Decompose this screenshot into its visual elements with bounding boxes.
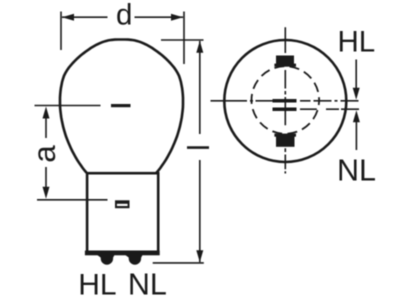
horizontal centerline (dash-dot segments) — [211, 100, 359, 102]
dimension l: up arrowhead — [196, 41, 203, 53]
bulb glass outline (side view) — [60, 40, 183, 173]
dimension l: vertical line upper segment — [199, 41, 201, 134]
dimension a: vertical line lower segment — [45, 167, 47, 189]
bottom pad body — [276, 136, 295, 147]
svg-text:NL: NL — [337, 154, 376, 188]
top contact pad (end view) — [276, 56, 294, 65]
dimension a: top reference line (light center line) — [35, 105, 101, 107]
svg-text:d: d — [116, 0, 132, 32]
svg-text:HL: HL — [338, 26, 376, 59]
bayonet pin (black rect with white slot) on base — [115, 200, 130, 208]
contact bump HL (bottom left) — [95, 253, 116, 258]
dimension a: down arrowhead — [43, 187, 50, 199]
NL reference line (right, dashed segments) — [300, 108, 359, 110]
top pad flange — [274, 64, 296, 67]
dimension d: left extension line — [60, 12, 62, 51]
pin white slot — [117, 204, 128, 206]
contact bump NL (bottom right) — [123, 253, 144, 258]
dimension d: left arrowhead — [62, 14, 74, 21]
base cap rectangle — [87, 173, 158, 252]
dimension d: line right segment — [135, 16, 184, 18]
filament bar NL (offset) — [273, 108, 297, 112]
svg-text:l: l — [181, 144, 216, 151]
dimension a: bottom reference line (pin plane) — [37, 199, 108, 201]
dimension a: up arrowhead — [43, 107, 50, 119]
NL arrowhead (up) — [353, 110, 360, 122]
dimension d: right arrowhead — [171, 14, 183, 21]
dimension l: bottom extension line — [153, 262, 204, 264]
vertical centerline (dash-dot segments) — [284, 27, 286, 173]
dimension l: down arrowhead — [196, 250, 203, 262]
filament bar HL (on axis) — [273, 99, 297, 103]
inner dashed circle (pin pitch circle) — [251, 66, 319, 134]
NL arrow line — [355, 121, 357, 150]
dimension l: top extension line — [161, 39, 204, 41]
svg-text:NL: NL — [128, 268, 167, 300]
HL arrowhead (down) — [353, 88, 360, 100]
dimension d: right extension line — [183, 12, 185, 65]
svg-text:HL: HL — [78, 269, 116, 300]
HL arrow line — [355, 60, 357, 90]
filament dash inside bulb — [111, 104, 131, 107]
dimension l: vertical line lower segment — [199, 160, 201, 262]
outer circle (cap outline, end view) — [224, 40, 346, 162]
dimension a: vertical line upper segment — [45, 117, 47, 138]
dimension d: line left segment — [62, 16, 108, 18]
bottom contact pad (end view) — [274, 134, 296, 137]
svg-text:a: a — [26, 145, 62, 163]
base bottom thick edge — [85, 251, 160, 256]
